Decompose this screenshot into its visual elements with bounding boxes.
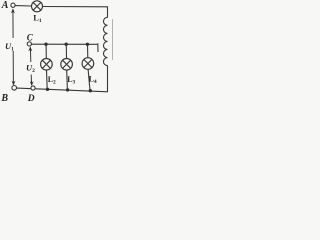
terminal A: [11, 3, 15, 7]
junction dot: [65, 43, 68, 46]
wire C rail: [31, 43, 97, 45]
wire: [17, 88, 108, 92]
junction dot: [89, 89, 92, 92]
svg-text:D: D: [27, 94, 35, 103]
lamp L4: [82, 58, 94, 70]
svg-text:L2: L2: [48, 75, 56, 86]
junction dot: [66, 88, 69, 91]
wire L3 branch bottom: [66, 70, 69, 90]
wire L4 branch top: [87, 44, 89, 57]
svg-text:L1: L1: [33, 12, 42, 24]
inductor coil: [103, 17, 107, 65]
voltage arrow U2 upper: [28, 46, 32, 62]
lamp L2: [41, 59, 53, 71]
wire L2 branch bottom: [46, 70, 49, 89]
junction dot: [46, 88, 49, 91]
svg-text:U1: U1: [5, 41, 14, 53]
voltage arrow U1 lower: [12, 51, 16, 86]
svg-text:A: A: [1, 0, 9, 11]
svg-text:L4: L4: [89, 74, 97, 85]
junction dot: [86, 43, 89, 46]
terminal C: [27, 42, 31, 46]
iron core line: [112, 19, 114, 60]
terminal B: [12, 86, 17, 91]
svg-text:U2: U2: [26, 62, 35, 74]
junction dot: [44, 43, 47, 46]
voltage arrow U1 upper: [11, 8, 15, 38]
lamp L3: [61, 59, 73, 71]
terminal D: [31, 86, 35, 90]
svg-text:L3: L3: [67, 75, 75, 86]
svg-text:B: B: [0, 93, 8, 103]
wire: [107, 6, 109, 17]
wire: [43, 6, 108, 8]
svg-text:C: C: [27, 32, 34, 42]
wire: [15, 5, 31, 7]
voltage arrow U2 lower: [30, 75, 34, 87]
wire stub: [96, 44, 99, 52]
lamp L1: [32, 1, 43, 12]
wire L3 branch top: [65, 44, 67, 58]
wire: [107, 66, 109, 92]
wire L2 branch top: [45, 44, 47, 58]
wire L4 branch bottom: [88, 69, 90, 90]
